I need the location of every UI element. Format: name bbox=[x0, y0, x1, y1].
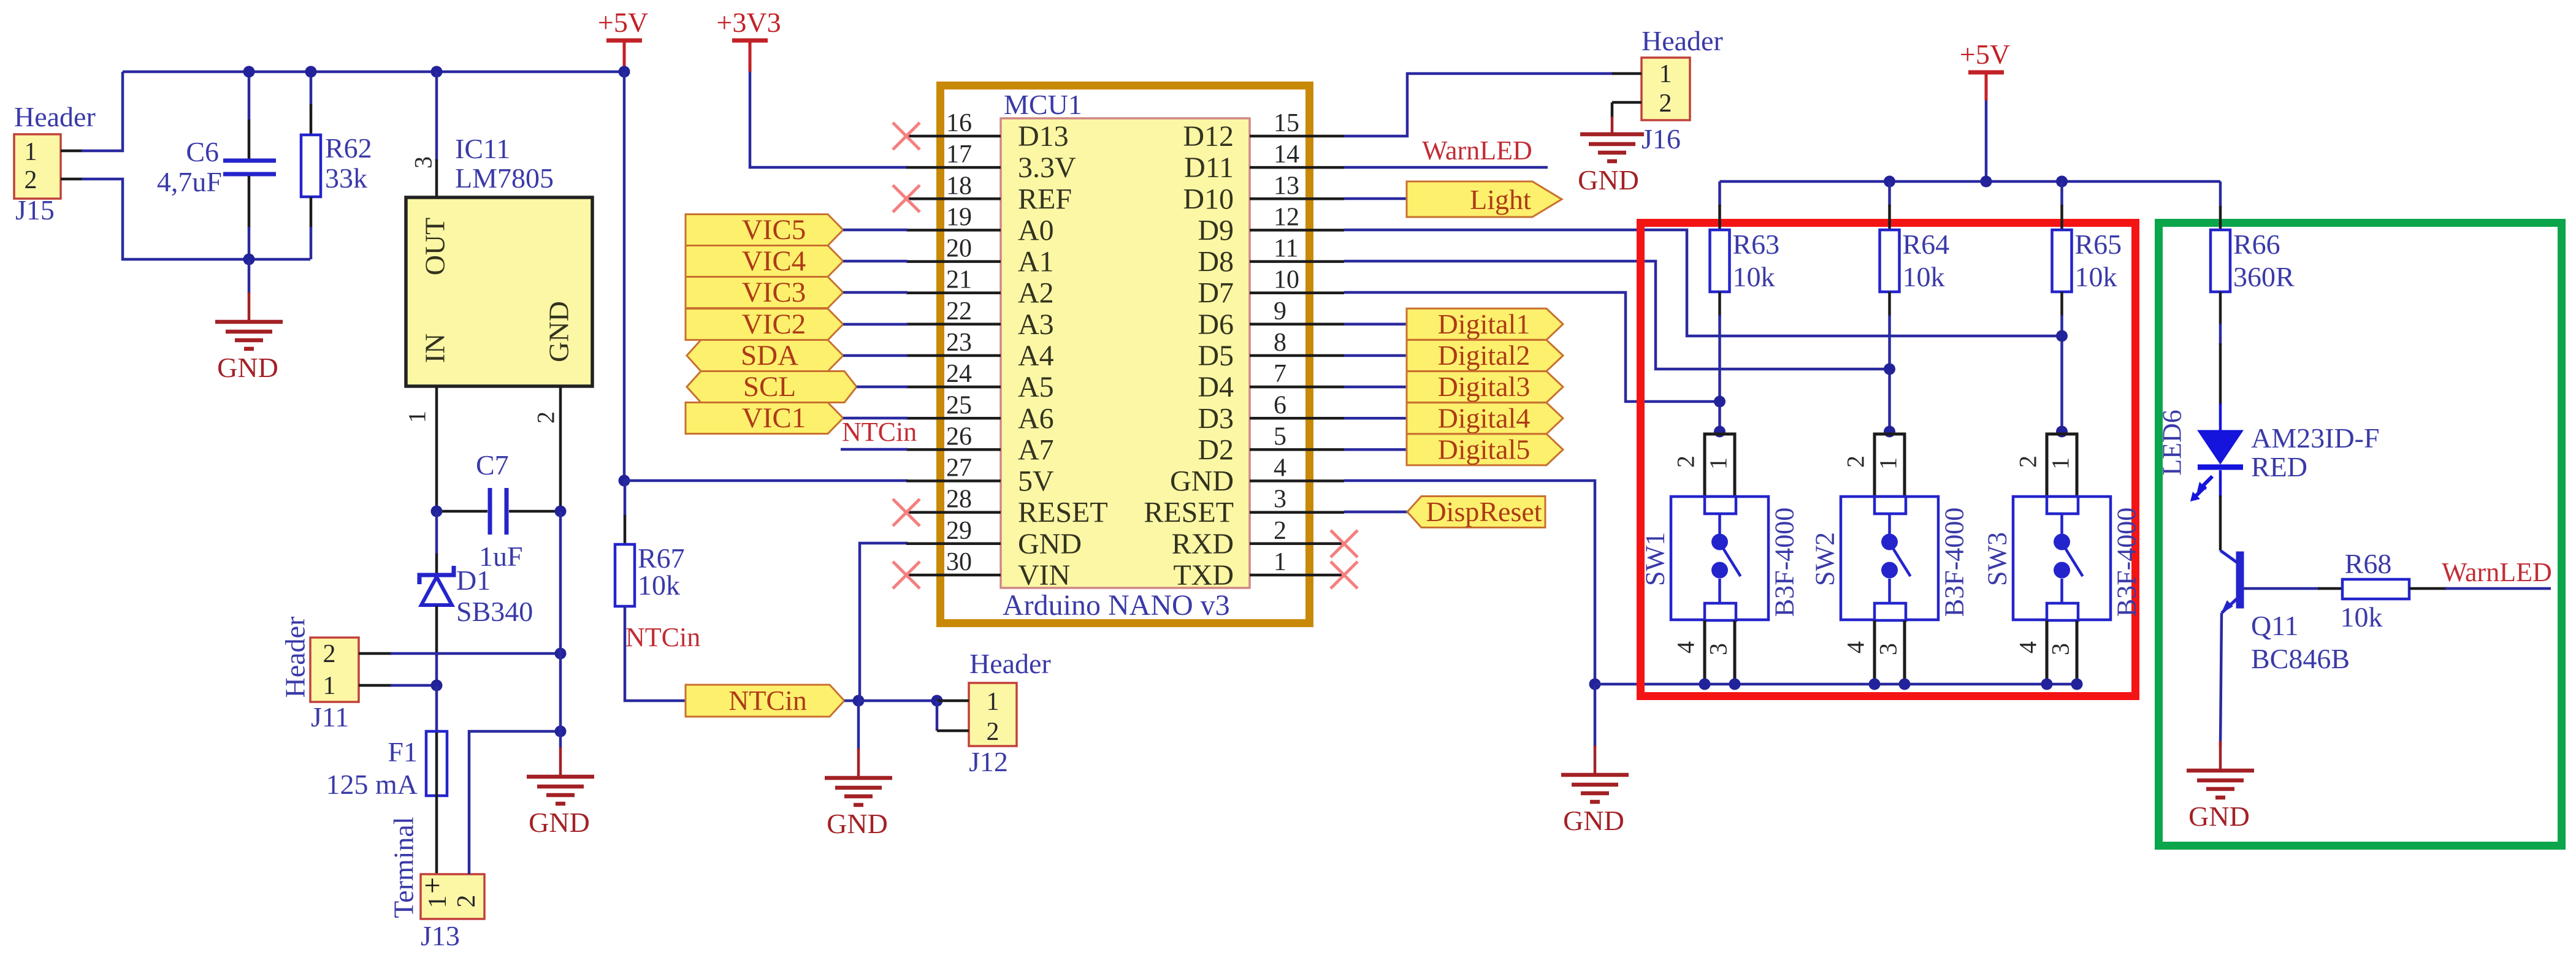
capacitor C7 bbox=[437, 510, 487, 513]
svg-text:J13: J13 bbox=[421, 920, 460, 951]
svg-text:28: 28 bbox=[946, 486, 972, 514]
pin 4 GND MCU1 bbox=[1250, 479, 1344, 482]
svg-text:IC11: IC11 bbox=[455, 133, 510, 164]
MCU1 symbol body bbox=[1001, 118, 1250, 588]
svg-text:1: 1 bbox=[403, 411, 431, 423]
wire VIC5 to A0 bbox=[843, 229, 908, 232]
wire J15 pin1 to rail bbox=[82, 72, 123, 151]
pin 25 A6 MCU1 bbox=[906, 417, 1001, 420]
wire D7 pin10 to R63 bbox=[1344, 292, 1720, 402]
svg-text:22: 22 bbox=[946, 297, 972, 326]
pin 19 A0 MCU1 bbox=[906, 229, 1001, 232]
wire SCL to A5 bbox=[857, 386, 908, 389]
svg-text:12: 12 bbox=[1274, 203, 1299, 231]
svg-text:J11: J11 bbox=[311, 701, 349, 733]
flag VIC4 bbox=[686, 246, 843, 277]
svg-text:SB340: SB340 bbox=[456, 596, 533, 627]
terminal J13 bbox=[421, 874, 484, 919]
node R65 switch top bbox=[2056, 426, 2068, 438]
svg-text:VIC3: VIC3 bbox=[742, 276, 806, 308]
svg-text:17: 17 bbox=[946, 140, 972, 169]
svg-text:A5: A5 bbox=[1018, 371, 1054, 403]
switch SW2 top pins bracket bbox=[1875, 434, 1905, 498]
svg-text:NTCin: NTCin bbox=[728, 685, 807, 716]
svg-text:D10: D10 bbox=[1183, 183, 1234, 215]
node R63 tap bbox=[1714, 396, 1726, 408]
svg-text:R64: R64 bbox=[1903, 229, 1950, 260]
svg-text:R68: R68 bbox=[2345, 548, 2392, 579]
pin 21 A2 MCU1 bbox=[906, 291, 1001, 294]
svg-text:1: 1 bbox=[1875, 457, 1902, 470]
node rail-+5V bbox=[619, 66, 630, 78]
svg-text:3.3V: 3.3V bbox=[1018, 151, 1076, 184]
svg-text:WarnLED: WarnLED bbox=[1422, 135, 1532, 166]
svg-text:GND: GND bbox=[543, 301, 575, 362]
ground below J13 net bbox=[559, 731, 562, 749]
svg-text:D1: D1 bbox=[456, 565, 491, 596]
wire J12 pin1 stub bbox=[937, 699, 969, 703]
node R63 switch top bbox=[1714, 426, 1726, 438]
svg-text:Terminal: Terminal bbox=[388, 817, 419, 918]
svg-text:TXD: TXD bbox=[1173, 559, 1234, 592]
svg-text:9: 9 bbox=[1274, 297, 1286, 326]
svg-text:2: 2 bbox=[323, 640, 336, 668]
svg-text:26: 26 bbox=[946, 422, 972, 451]
wire +3V3 to pin 17 bbox=[750, 72, 908, 167]
svg-text:11: 11 bbox=[1274, 235, 1298, 263]
wire MCU pin29 GND down bbox=[860, 543, 908, 701]
wire VIC1 to A6 bbox=[843, 417, 908, 420]
svg-text:D12: D12 bbox=[1183, 120, 1234, 153]
svg-text:A1: A1 bbox=[1018, 246, 1054, 278]
svg-text:RESET: RESET bbox=[1018, 497, 1108, 529]
node C7 right bbox=[555, 506, 567, 517]
wire R63 to switch bbox=[1718, 292, 1721, 316]
node C7 left bbox=[431, 506, 443, 517]
svg-text:21: 21 bbox=[946, 266, 972, 294]
wire SDA to A4 bbox=[843, 354, 908, 357]
svg-text:J16: J16 bbox=[1642, 123, 1681, 154]
svg-text:B3F-4000: B3F-4000 bbox=[2112, 508, 2142, 617]
svg-text:VIN: VIN bbox=[1018, 559, 1070, 592]
svg-text:33k: 33k bbox=[325, 162, 367, 194]
wire R68 to WarnLED bbox=[2409, 587, 2447, 590]
svg-text:1: 1 bbox=[1705, 457, 1732, 470]
diode D1 SB340 bbox=[435, 511, 438, 555]
node J13 pin2 - GND bbox=[555, 726, 567, 737]
svg-text:GND: GND bbox=[529, 807, 590, 838]
svg-text:J15: J15 bbox=[15, 194, 55, 226]
wire J11 pin2 stub bbox=[359, 652, 392, 655]
svg-text:3: 3 bbox=[2047, 643, 2074, 655]
node rail R65 bbox=[2056, 176, 2068, 188]
svg-text:D8: D8 bbox=[1198, 246, 1234, 278]
svg-text:5V: 5V bbox=[1018, 465, 1054, 498]
svg-text:10k: 10k bbox=[2075, 261, 2117, 292]
svg-text:18: 18 bbox=[946, 172, 972, 200]
svg-text:GND: GND bbox=[1578, 164, 1639, 196]
svg-text:10: 10 bbox=[1274, 266, 1299, 294]
node J11 pin1 bbox=[431, 680, 443, 691]
resistor R62 bbox=[310, 72, 313, 105]
wire IC11 pin 1 (IN) bbox=[435, 386, 438, 512]
header J11 bbox=[310, 638, 359, 702]
wire NTCin flag to GND net node bbox=[844, 699, 858, 703]
pin 14 D11 MCU1 bbox=[1250, 166, 1344, 169]
svg-text:Digital3: Digital3 bbox=[1438, 371, 1531, 402]
wire WarnLED from pin14 bbox=[1344, 166, 1548, 169]
svg-text:Light: Light bbox=[1470, 184, 1531, 215]
svg-text:BC846B: BC846B bbox=[2251, 643, 2350, 674]
pin 11 D8 MCU1 bbox=[1250, 260, 1344, 263]
wire D8 pin11 to R64 bbox=[1344, 261, 1890, 369]
svg-text:D7: D7 bbox=[1198, 277, 1234, 310]
svg-text:2: 2 bbox=[1842, 455, 1870, 468]
pin 1 TXD MCU1 bbox=[1250, 574, 1344, 577]
svg-text:GND: GND bbox=[2188, 801, 2250, 832]
svg-text:2: 2 bbox=[453, 895, 481, 908]
svg-text:RESET: RESET bbox=[1144, 497, 1234, 529]
wire R65 to switch bbox=[2060, 292, 2063, 316]
svg-text:2: 2 bbox=[1274, 517, 1286, 545]
svg-text:A3: A3 bbox=[1018, 308, 1054, 341]
pin 20 A1 MCU1 bbox=[906, 260, 1001, 263]
svg-text:VIC4: VIC4 bbox=[742, 245, 806, 277]
svg-text:RED: RED bbox=[2251, 451, 2307, 482]
resistor R66 bbox=[2219, 206, 2222, 231]
no-connect pin 16 bbox=[893, 123, 920, 150]
ground below Q11 bbox=[2219, 741, 2222, 771]
svg-text:B3F-4000: B3F-4000 bbox=[1940, 508, 1970, 617]
svg-text:1: 1 bbox=[25, 138, 37, 166]
svg-text:WarnLED: WarnLED bbox=[2442, 557, 2552, 587]
pin 13 D10 MCU1 bbox=[1250, 197, 1344, 200]
svg-text:1: 1 bbox=[323, 672, 336, 700]
svg-text:AM23ID-F: AM23ID-F bbox=[2251, 422, 2380, 454]
svg-text:D9: D9 bbox=[1198, 214, 1234, 246]
svg-text:1: 1 bbox=[1274, 548, 1286, 576]
svg-text:C7: C7 bbox=[476, 449, 509, 481]
wire pin7 to Digital3 flag bbox=[1344, 386, 1408, 389]
node SW1 pin3 gnd bbox=[1729, 679, 1741, 690]
wire IC GND vertical bbox=[559, 511, 562, 731]
svg-text:D2: D2 bbox=[1198, 433, 1234, 466]
no-connect pin 1 bbox=[1331, 562, 1358, 589]
svg-text:Digital4: Digital4 bbox=[1438, 402, 1531, 433]
node SW1 pin4 gnd bbox=[1699, 679, 1711, 690]
switch SW3 top pins bracket bbox=[2047, 434, 2077, 498]
pin 17 3.3V MCU1 bbox=[906, 166, 1001, 169]
wire +5V vertical to MCU 5V pin bbox=[623, 72, 626, 481]
svg-text:GND: GND bbox=[827, 808, 888, 839]
svg-text:SW3: SW3 bbox=[1982, 532, 2012, 586]
node R64 switch top bbox=[1884, 426, 1895, 438]
svg-text:D5: D5 bbox=[1198, 340, 1234, 372]
svg-text:3: 3 bbox=[410, 156, 437, 169]
node NTCin junction bbox=[853, 695, 865, 707]
svg-text:4,7uF: 4,7uF bbox=[157, 166, 222, 197]
wire J12 pin2 jog bbox=[936, 701, 939, 731]
node rail R64 bbox=[1884, 176, 1895, 188]
wire VIC2 to A3 bbox=[843, 323, 908, 326]
node rail +5V bbox=[1981, 176, 1992, 188]
svg-text:+3V3: +3V3 bbox=[716, 7, 781, 38]
svg-text:R63: R63 bbox=[1733, 229, 1780, 260]
pin 15 D12 MCU1 bbox=[1250, 135, 1344, 138]
svg-text:R66: R66 bbox=[2233, 229, 2280, 260]
svg-text:A0: A0 bbox=[1018, 214, 1054, 246]
svg-text:4: 4 bbox=[1672, 641, 1700, 653]
no-connect pin 30 bbox=[893, 562, 920, 589]
flag VIC5 bbox=[686, 215, 843, 246]
pin 22 A3 MCU1 bbox=[906, 323, 1001, 326]
svg-text:4: 4 bbox=[2014, 641, 2042, 653]
wire IC11 pin 2 (GND) bbox=[559, 386, 562, 512]
svg-text:NTCin: NTCin bbox=[625, 622, 700, 652]
svg-text:DispReset: DispReset bbox=[1426, 496, 1542, 527]
pin 18 REF MCU1 bbox=[906, 197, 1001, 200]
pin 9 D6 MCU1 bbox=[1250, 323, 1344, 326]
svg-text:2: 2 bbox=[1659, 90, 1672, 118]
svg-text:C6: C6 bbox=[186, 136, 219, 167]
svg-text:R65: R65 bbox=[2075, 229, 2122, 260]
svg-text:3: 3 bbox=[1274, 486, 1286, 514]
flag Digital4 bbox=[1407, 403, 1563, 434]
ground below C6 bbox=[248, 259, 251, 294]
no-connect pin 2 bbox=[1331, 530, 1358, 557]
ground net horizontal bbox=[1595, 683, 2077, 686]
node rail-C6 bbox=[243, 66, 255, 78]
wire across to J12 bbox=[858, 699, 937, 703]
svg-text:10k: 10k bbox=[2341, 601, 2383, 633]
switch SW2 body B3F-4000 bbox=[1841, 497, 1938, 620]
wire J15 pin1 stub bbox=[61, 150, 83, 153]
wire J15 pin2 stub bbox=[61, 178, 83, 181]
svg-text:RXD: RXD bbox=[1172, 528, 1234, 560]
led LED6 AM23ID-F bbox=[2219, 403, 2222, 432]
svg-text:3: 3 bbox=[1705, 643, 1732, 655]
svg-text:29: 29 bbox=[946, 517, 972, 545]
pin 3 RESET MCU1 bbox=[1250, 511, 1344, 514]
svg-text:8: 8 bbox=[1274, 329, 1286, 357]
svg-text:B3F-4000: B3F-4000 bbox=[1770, 508, 1800, 617]
svg-text:VIC5: VIC5 bbox=[742, 214, 806, 246]
node SW3 pin4 gnd bbox=[2041, 679, 2053, 690]
svg-text:VIC1: VIC1 bbox=[742, 402, 806, 434]
wire Q11 base to R68 bbox=[2244, 587, 2319, 590]
svg-text:10k: 10k bbox=[1733, 261, 1775, 292]
wire +5V to pin 27 bbox=[624, 479, 908, 482]
wire J16 pin1 stub bbox=[1612, 72, 1642, 75]
node J12 junction bbox=[931, 695, 943, 707]
svg-text:4: 4 bbox=[1274, 454, 1286, 482]
svg-text:2: 2 bbox=[25, 166, 37, 194]
svg-text:LED6: LED6 bbox=[2157, 410, 2187, 476]
node ground net left bbox=[1589, 679, 1601, 690]
svg-text:A7: A7 bbox=[1018, 433, 1054, 466]
switch SW1 body B3F-4000 bbox=[1671, 497, 1768, 620]
node +5V corner R67 bbox=[619, 475, 630, 487]
svg-text:GND: GND bbox=[1563, 805, 1624, 836]
wire VIC3 to A2 bbox=[843, 291, 908, 294]
svg-text:+5V: +5V bbox=[1960, 39, 2010, 70]
switch SW2 bottom pins bbox=[1873, 620, 1876, 684]
flag Light bbox=[1407, 181, 1562, 217]
svg-text:A6: A6 bbox=[1018, 402, 1054, 435]
regulator IC11 LM7805 bbox=[406, 197, 592, 386]
pin 10 D7 MCU1 bbox=[1250, 291, 1344, 294]
no-connect pin 28 bbox=[893, 499, 920, 526]
svg-text:13: 13 bbox=[1274, 172, 1299, 200]
no-connect pin 18 bbox=[893, 185, 920, 212]
svg-text:14: 14 bbox=[1274, 140, 1299, 169]
svg-text:2: 2 bbox=[987, 718, 999, 746]
resistor R64 bbox=[1888, 181, 1891, 206]
svg-text:19: 19 bbox=[946, 203, 972, 231]
svg-text:OUT: OUT bbox=[419, 218, 451, 276]
module frame Arduino NANO bbox=[941, 86, 1310, 623]
node R64 tap bbox=[1884, 364, 1895, 375]
header J12 bbox=[969, 683, 1017, 746]
resistor R63 bbox=[1718, 181, 1721, 206]
svg-text:GND: GND bbox=[217, 352, 278, 383]
wire pin3 to DispReset flag bbox=[1344, 511, 1408, 514]
wire J11 pin1 to input net bbox=[391, 684, 437, 687]
wire IC11 pin 3 bbox=[435, 72, 438, 161]
svg-text:30: 30 bbox=[946, 548, 972, 576]
svg-text:Digital5: Digital5 bbox=[1438, 433, 1531, 465]
wire J11 pin1 stub bbox=[359, 684, 392, 687]
svg-text:23: 23 bbox=[946, 329, 972, 357]
flag Digital2 bbox=[1407, 340, 1563, 371]
svg-text:SW2: SW2 bbox=[1810, 532, 1840, 586]
svg-text:GND: GND bbox=[1170, 465, 1234, 498]
ground below NTCin node bbox=[857, 701, 860, 750]
node SW3 pin3 gnd bbox=[2071, 679, 2083, 690]
flag SCL bbox=[687, 371, 857, 403]
svg-text:1: 1 bbox=[424, 896, 452, 909]
svg-text:R62: R62 bbox=[325, 132, 372, 164]
svg-text:7: 7 bbox=[1274, 360, 1286, 388]
pin 24 A5 MCU1 bbox=[906, 386, 1001, 389]
svg-text:NTCin: NTCin bbox=[842, 417, 917, 447]
svg-text:SDA: SDA bbox=[741, 340, 798, 371]
pin 12 D9 MCU1 bbox=[1250, 229, 1344, 232]
svg-text:Q11: Q11 bbox=[2251, 610, 2299, 641]
svg-text:LM7805: LM7805 bbox=[455, 162, 554, 194]
resistor R65 bbox=[2060, 181, 2063, 206]
wire +5V top rail bbox=[123, 70, 624, 74]
wire R67 to NTCin flag bbox=[625, 606, 687, 701]
wire Q11 emitter to ground bbox=[2220, 613, 2222, 747]
svg-text:Header: Header bbox=[280, 617, 311, 698]
wire +5V rail to resistors bbox=[1720, 180, 2221, 183]
svg-text:24: 24 bbox=[946, 360, 972, 388]
svg-text:+5V: +5V bbox=[598, 7, 648, 38]
node rail-R62 bbox=[305, 66, 317, 78]
wire VIC4 to A1 bbox=[843, 260, 908, 263]
svg-text:A4: A4 bbox=[1018, 340, 1054, 372]
wire pin9 to Digital1 flag bbox=[1344, 323, 1408, 326]
pin 8 D5 MCU1 bbox=[1250, 354, 1344, 357]
switch SW3 body B3F-4000 bbox=[2013, 497, 2111, 620]
svg-text:D6: D6 bbox=[1198, 308, 1234, 341]
svg-text:10k: 10k bbox=[1903, 261, 1945, 292]
pin 27 5V MCU1 bbox=[906, 479, 1001, 482]
wire rail to R66 bbox=[2219, 181, 2222, 207]
svg-text:360R: 360R bbox=[2233, 261, 2295, 292]
svg-text:D13: D13 bbox=[1018, 120, 1069, 153]
flag SDA bbox=[687, 340, 843, 371]
flag NTCin bbox=[686, 685, 844, 717]
flag VIC2 bbox=[686, 309, 843, 340]
flag VIC1 bbox=[686, 403, 843, 434]
svg-text:REF: REF bbox=[1018, 183, 1072, 215]
svg-text:6: 6 bbox=[1274, 391, 1286, 419]
svg-text:SCL: SCL bbox=[743, 371, 796, 403]
wire pin5 to Digital5 flag bbox=[1344, 448, 1408, 451]
svg-text:27: 27 bbox=[946, 454, 972, 482]
wire J13 pin2 up to GND net bbox=[469, 731, 560, 874]
svg-text:3: 3 bbox=[1875, 643, 1902, 655]
pin 7 D4 MCU1 bbox=[1250, 386, 1344, 389]
wire R64 to switch bbox=[1888, 292, 1891, 316]
led light arrows bbox=[2200, 476, 2212, 489]
switch SW3 bottom pins bbox=[2046, 620, 2049, 684]
wire pin8 to Digital2 flag bbox=[1344, 354, 1408, 357]
svg-text:MCU1: MCU1 bbox=[1004, 89, 1082, 120]
wire pin13 to Light flag bbox=[1344, 197, 1408, 200]
svg-text:Header: Header bbox=[969, 648, 1051, 679]
svg-text:5: 5 bbox=[1274, 422, 1286, 451]
capacitor C6 bbox=[248, 72, 251, 121]
pin 28 RESET MCU1 bbox=[906, 511, 1001, 514]
svg-text:F1: F1 bbox=[388, 736, 418, 768]
svg-text:2: 2 bbox=[2014, 455, 2042, 468]
pin 6 D3 MCU1 bbox=[1250, 417, 1344, 420]
svg-text:Digital2: Digital2 bbox=[1438, 340, 1531, 371]
resistor R68 bbox=[2342, 579, 2409, 599]
flag VIC3 bbox=[686, 277, 843, 308]
svg-text:IN: IN bbox=[419, 333, 451, 364]
svg-text:D4: D4 bbox=[1198, 371, 1234, 403]
ground below switch net bbox=[1594, 684, 1597, 747]
svg-text:20: 20 bbox=[946, 235, 972, 263]
svg-text:J12: J12 bbox=[969, 746, 1008, 777]
switch SW1 bottom pins bbox=[1703, 620, 1707, 684]
ground at J16 bbox=[1611, 116, 1614, 134]
svg-text:VIC2: VIC2 bbox=[742, 308, 806, 340]
pin 26 A7 MCU1 bbox=[906, 448, 1001, 451]
node SW2 pin3 gnd bbox=[1899, 679, 1911, 690]
switch SW1 top pins bracket bbox=[1705, 434, 1735, 498]
wire D9 pin12 to R65 bbox=[1344, 230, 2062, 336]
svg-text:15: 15 bbox=[1274, 109, 1299, 137]
pin 16 D13 MCU1 bbox=[906, 135, 1001, 138]
svg-text:10k: 10k bbox=[638, 570, 680, 601]
pin 5 D2 MCU1 bbox=[1250, 448, 1344, 451]
wire NTCin to A7 bbox=[841, 448, 908, 451]
node SW2 pin4 gnd bbox=[1869, 679, 1881, 690]
pin 2 RXD MCU1 bbox=[1250, 543, 1344, 546]
group box switches (red) bbox=[1641, 223, 2136, 696]
svg-text:25: 25 bbox=[946, 391, 972, 419]
wire R66 to LED6 bbox=[2219, 292, 2222, 325]
svg-text:Digital1: Digital1 bbox=[1438, 308, 1531, 340]
resistor R67 bbox=[624, 481, 627, 516]
svg-text:125 mA: 125 mA bbox=[326, 769, 418, 800]
pin 23 A4 MCU1 bbox=[906, 354, 1001, 357]
